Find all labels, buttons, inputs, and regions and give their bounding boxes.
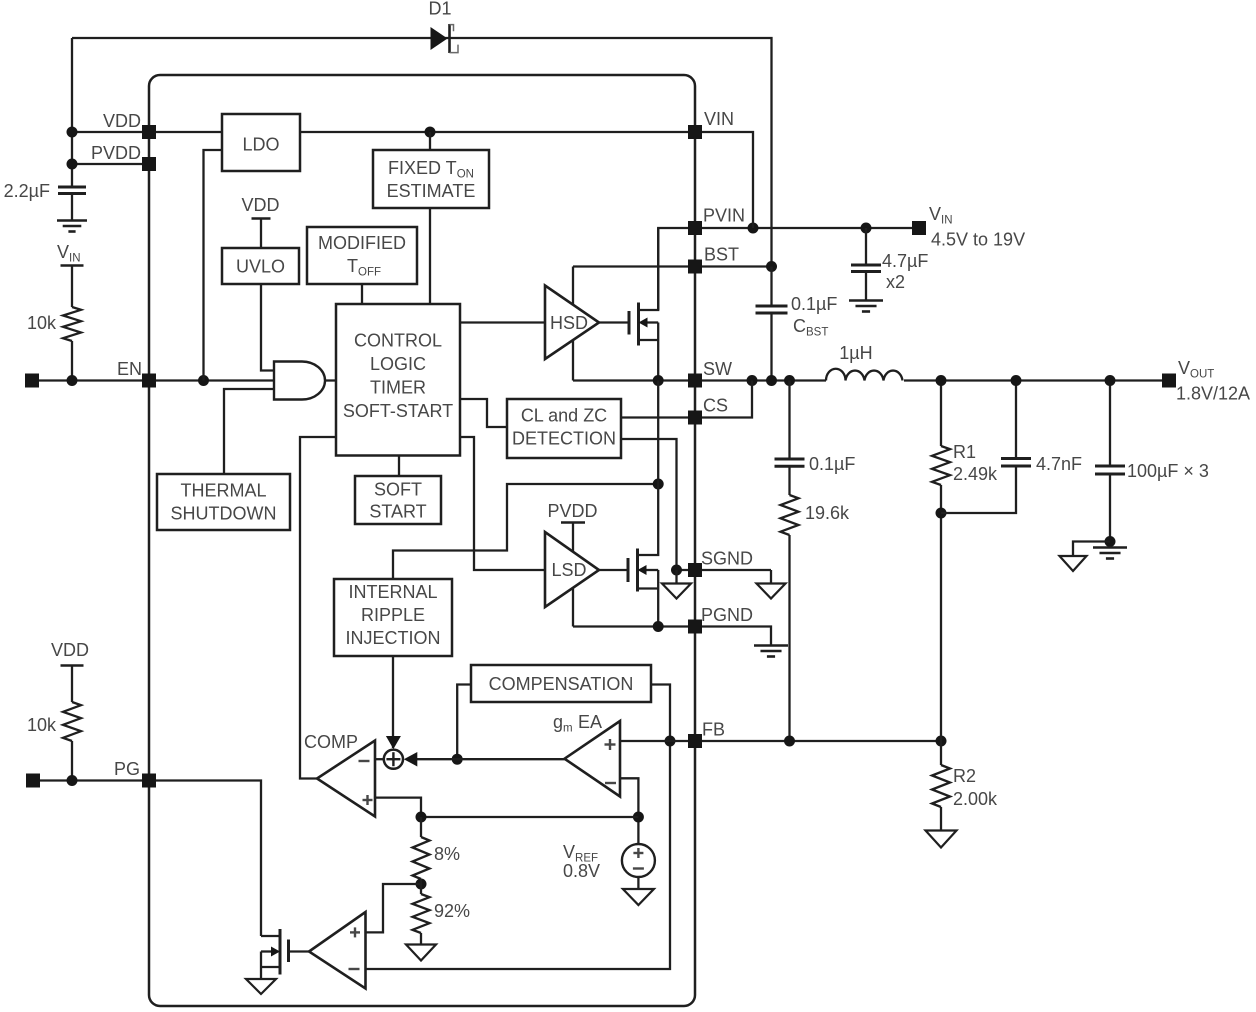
ground PGND external: [754, 644, 788, 647]
wire PGND net: [573, 627, 771, 646]
pin pad PVDD: [142, 157, 156, 171]
wire PVIN net: [658, 228, 919, 310]
svg-text:SGND: SGND: [701, 549, 753, 569]
pin pad PGND: [688, 620, 702, 634]
wire FB net external: [695, 740, 941, 742]
svg-text:1µH: 1µH: [839, 343, 872, 363]
pin pad SW: [688, 374, 702, 388]
terminal PG output: [26, 774, 40, 788]
wire control to CL-ZC detection: [460, 399, 507, 427]
terminal EN input: [25, 374, 39, 388]
svg-text:D1: D1: [428, 0, 451, 19]
svg-text:SOFT-START: SOFT-START: [343, 401, 453, 421]
wire UVLO to AND gate: [261, 284, 274, 371]
pin pad BST: [688, 260, 702, 274]
wire control to COMP output: [300, 437, 336, 779]
svg-text:PVDD: PVDD: [91, 143, 141, 163]
svg-text:PGND: PGND: [701, 605, 753, 625]
resistor R2 2.00k: [940, 741, 942, 765]
svg-text:0.1µF: 0.1µF: [809, 454, 855, 474]
ground below R2: [926, 831, 957, 848]
svg-text:8%: 8%: [434, 844, 460, 864]
block COMPENSATION: [471, 665, 651, 702]
node CS tap junction: [747, 375, 758, 386]
resistor 92 percent: [413, 894, 430, 933]
svg-text:10k: 10k: [27, 313, 57, 333]
svg-text:BST: BST: [704, 245, 739, 265]
svg-text:CS: CS: [703, 396, 728, 416]
svg-text:R1: R1: [953, 442, 976, 462]
capacitor CBST 0.1uF: [770, 267, 772, 306]
node FB internal junction: [665, 736, 676, 747]
terminal VIN supply: [912, 221, 926, 235]
svg-text:2.49k: 2.49k: [953, 464, 998, 484]
ground below VREF: [623, 889, 654, 905]
svg-text:THERMAL: THERMAL: [180, 481, 266, 501]
pin pad EN: [142, 374, 156, 388]
svg-text:START: START: [369, 502, 426, 522]
svg-text:COMPENSATION: COMPENSATION: [489, 674, 634, 694]
wire BST net: [573, 265, 772, 267]
block SOFT START: [355, 476, 441, 524]
svg-text:INJECTION: INJECTION: [345, 628, 440, 648]
wire TOFF to control logic: [361, 284, 363, 304]
svg-text:MODIFIED: MODIFIED: [318, 233, 406, 253]
node PVDD junction: [67, 159, 78, 170]
node LS source junction: [653, 621, 664, 632]
wire compensation left leg: [457, 685, 471, 760]
svg-text:SHUTDOWN: SHUTDOWN: [171, 504, 277, 524]
node divider mid junction: [416, 879, 427, 890]
pin pad VDD: [142, 125, 156, 139]
block CL and ZC DETECTION: [507, 399, 621, 458]
opamp gm EA error amplifier: [565, 721, 621, 797]
svg-text:LDO: LDO: [242, 135, 279, 155]
wire control to LSD: [460, 437, 544, 570]
svg-text:CL and ZC: CL and ZC: [521, 406, 607, 426]
wire detection to SGND node: [621, 439, 677, 570]
pin pad FB: [688, 734, 702, 748]
wire EA plus input to FB: [620, 740, 695, 742]
svg-text:VDD: VDD: [51, 640, 89, 660]
wire TON to VDD line: [429, 132, 431, 150]
wire ripple injection to summing node: [392, 656, 394, 748]
wire thermal shutdown to AND gate: [224, 389, 274, 474]
wire summing to COMP minus: [375, 758, 384, 760]
svg-text:0.8V: 0.8V: [563, 861, 600, 881]
capacitor 4.7nF feedforward: [1015, 381, 1017, 458]
svg-text:VIN: VIN: [704, 109, 734, 129]
resistor R1 2.49k: [940, 381, 942, 447]
wire SW sense to ripple injection: [393, 484, 658, 579]
wire BST rail of HSD: [572, 267, 574, 381]
svg-text:LOGIC: LOGIC: [370, 354, 426, 374]
wire CS sense to detection: [621, 416, 695, 418]
node 4.7nF top junction: [1011, 375, 1022, 386]
node CBST junction: [766, 375, 777, 386]
node divider top junction: [416, 812, 427, 823]
node VDD junction: [67, 127, 78, 138]
transistor PG open-drain NMOS: [287, 940, 290, 963]
svg-text:DETECTION: DETECTION: [512, 429, 616, 449]
svg-text:10k: 10k: [27, 715, 57, 735]
svg-text:VDD: VDD: [241, 195, 279, 215]
resistor 10k PG pullup: [63, 702, 81, 741]
svg-text:PVIN: PVIN: [703, 206, 745, 226]
wire EA minus to VREF: [620, 778, 638, 844]
node VIN-PVIN junction: [748, 223, 759, 234]
node SGND junction: [671, 565, 682, 576]
wire control to HSD: [460, 321, 544, 323]
svg-text:VDD: VDD: [103, 111, 141, 131]
svg-text:RIPPLE: RIPPLE: [361, 605, 425, 625]
node EN internal junction: [198, 375, 209, 386]
ground below PG pulldown: [246, 979, 276, 994]
svg-text:4.7nF: 4.7nF: [1036, 454, 1082, 474]
ground output signal: [1073, 542, 1110, 557]
wire LDO output to VIN pin: [300, 131, 695, 133]
node output cap junction: [1105, 375, 1116, 386]
pin pad CS: [688, 411, 702, 425]
node R1 bottom junction: [936, 508, 947, 519]
wire COMP plus input: [375, 798, 421, 817]
wire EA output to summing node: [407, 758, 565, 760]
block THERMAL SHUTDOWN: [157, 474, 290, 530]
wire PG comparator output to pulldown gate: [289, 950, 310, 952]
capacitor 100uF x3 output: [1109, 381, 1111, 466]
svg-text:R2: R2: [953, 766, 976, 786]
node FIXED-TON tap on VDD line: [425, 127, 436, 138]
svg-text:92%: 92%: [434, 901, 470, 921]
svg-text:0.1µF: 0.1µF: [791, 294, 837, 314]
wire VDD from input rail to VDD pin: [72, 131, 222, 133]
svg-text:CONTROL: CONTROL: [354, 331, 442, 351]
svg-text:4.7µF: 4.7µF: [882, 251, 928, 271]
node compensation tap: [452, 754, 463, 765]
wire VIN pin to PVIN net: [695, 132, 753, 228]
comparator PG power-good: [309, 912, 366, 989]
source VREF 0.8V: [622, 844, 655, 877]
node HS source junction: [653, 375, 664, 386]
svg-text:x2: x2: [886, 272, 905, 292]
wire TON to control logic: [429, 208, 431, 304]
node R2 junction: [936, 736, 947, 747]
wire HSD gate: [599, 321, 629, 323]
pin pad PVIN: [688, 221, 702, 235]
node BST-D1 junction: [766, 261, 777, 272]
svg-text:2.2µF: 2.2µF: [4, 181, 50, 201]
svg-text:1.8V/12A: 1.8V/12A: [1176, 384, 1250, 404]
svg-text:HSD: HSD: [550, 313, 588, 333]
ground below 2.2uF: [57, 219, 87, 222]
svg-text:4.5V to 19V: 4.5V to 19V: [931, 230, 1025, 250]
ground output earth: [1093, 546, 1127, 549]
node SW-sense junction: [653, 479, 664, 490]
svg-text:FB: FB: [702, 720, 725, 740]
resistor 19.6k ripple: [781, 495, 799, 535]
node output ground junction: [1105, 536, 1116, 547]
ground below input cap: [849, 299, 883, 302]
node PG-pullup junction: [67, 775, 78, 786]
svg-text:SOFT: SOFT: [374, 480, 422, 500]
capacitor 2.2uF input bypass: [58, 186, 86, 189]
svg-text:PVDD: PVDD: [547, 501, 597, 521]
IC boundary: [149, 75, 695, 1006]
block MODIFIED TOFF: [307, 227, 417, 284]
node ripple-to-FB junction: [784, 736, 795, 747]
svg-text:100µF × 3: 100µF × 3: [1127, 461, 1209, 481]
node R1 top junction: [936, 375, 947, 386]
resistor 8 percent: [413, 837, 430, 879]
wire PVDD from input rail to PVDD pin: [72, 163, 149, 165]
wire SW net: [573, 379, 826, 381]
wire compensation right leg to FB: [366, 685, 671, 970]
svg-text:EA: EA: [578, 712, 602, 732]
svg-text:19.6k: 19.6k: [805, 503, 850, 523]
node EN-pullup junction: [67, 375, 78, 386]
svg-text:TIMER: TIMER: [370, 378, 426, 398]
pin pad PG: [142, 774, 156, 788]
ground divider bottom: [406, 945, 436, 961]
summing node: [384, 750, 403, 769]
wire CS jog: [695, 381, 752, 418]
wire LSD gate: [599, 569, 628, 571]
svg-text:UVLO: UVLO: [236, 257, 285, 277]
block INTERNAL RIPPLE INJECTION: [334, 579, 452, 656]
pin pad VIN: [688, 125, 702, 139]
node input cap junction: [861, 223, 872, 234]
node ripple RC junction: [784, 375, 795, 386]
svg-text:INTERNAL: INTERNAL: [348, 582, 437, 602]
svg-text:SW: SW: [703, 359, 732, 379]
svg-text:COMP: COMP: [304, 732, 358, 752]
gate AND enable: [274, 362, 325, 400]
transistor high-side NMOS: [628, 311, 631, 335]
block LDO: [222, 114, 300, 171]
capacitor 0.1uF ripple: [788, 381, 790, 459]
wire LDO enable link: [204, 150, 223, 381]
wire control to soft start: [398, 456, 400, 477]
pin pad SGND: [688, 563, 702, 577]
block FIXED TON ESTIMATE: [373, 150, 489, 208]
wire left input rail x=72: [71, 38, 73, 187]
svg-text:PG: PG: [114, 759, 140, 779]
resistor 10k EN pullup: [63, 307, 81, 341]
wire divider top link: [421, 816, 638, 818]
wire AND output: [325, 379, 336, 381]
transistor low-side NMOS: [627, 558, 630, 582]
svg-text:2.00k: 2.00k: [953, 789, 998, 809]
wire VIN top rail with D1: [72, 38, 772, 267]
driver LSD: [545, 532, 599, 607]
wire PG net: [40, 781, 261, 937]
capacitor 4.7uF x2 input: [865, 228, 867, 264]
wire EN net: [39, 379, 274, 381]
block UVLO: [222, 248, 299, 284]
terminal VOUT: [1162, 374, 1176, 388]
node VREF top junction: [633, 812, 644, 823]
ground signal internal: [675, 570, 677, 584]
svg-text:ESTIMATE: ESTIMATE: [387, 181, 476, 201]
ground SGND external: [770, 570, 772, 584]
wire divider tap to PG comparator: [366, 884, 422, 932]
inductor 1uH: [826, 369, 903, 381]
block CONTROL LOGIC TIMER SOFT-START: [336, 304, 460, 456]
svg-text:LSD: LSD: [551, 560, 586, 580]
driver HSD: [545, 286, 599, 360]
svg-text:EN: EN: [117, 359, 142, 379]
wire SGND net: [677, 569, 772, 571]
